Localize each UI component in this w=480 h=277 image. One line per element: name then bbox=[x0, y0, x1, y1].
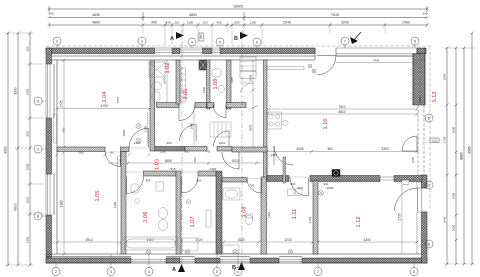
svg-text:2: 2 bbox=[55, 270, 57, 274]
section marker B top bbox=[234, 32, 248, 42]
door arc 1.11 bbox=[290, 178, 309, 197]
svg-text:7: 7 bbox=[317, 270, 319, 274]
bottom wall windows bbox=[131, 260, 166, 262]
wall 1.09 right vertical bbox=[227, 60, 232, 109]
svg-text:1.04: 1.04 bbox=[102, 92, 108, 103]
svg-text:2260: 2260 bbox=[443, 73, 447, 80]
svg-text:8510: 8510 bbox=[338, 110, 345, 114]
corridor bottom wall bbox=[144, 171, 177, 176]
interior dim chain bottom rooms bbox=[57, 241, 417, 243]
svg-text:2910: 2910 bbox=[85, 238, 92, 242]
wall below 1.09 / vestibule bbox=[207, 103, 214, 108]
door arc 1.09 bbox=[213, 105, 226, 118]
right grid bubbles bbox=[425, 114, 433, 248]
svg-text:2000: 2000 bbox=[122, 129, 126, 136]
roof overhang dashed line top bbox=[46, 46, 430, 210]
svg-text:3390: 3390 bbox=[14, 87, 18, 95]
svg-text:1000: 1000 bbox=[26, 163, 30, 170]
symbol circles corridor bbox=[136, 123, 141, 143]
corridor dim chain bbox=[108, 162, 262, 164]
door arc 1.06 bbox=[127, 177, 144, 194]
interior vertical chain right rooms bbox=[401, 185, 403, 254]
svg-text:915: 915 bbox=[170, 167, 175, 171]
radiator 1.01 bbox=[181, 68, 186, 102]
svg-text:1970: 1970 bbox=[163, 77, 167, 84]
bath 1.07 fixtures bbox=[182, 200, 211, 251]
terrace edge double line right bbox=[418, 105, 424, 175]
svg-text:8: 8 bbox=[413, 270, 415, 274]
top wall window 3 lines bbox=[212, 48, 220, 53]
svg-text:1320: 1320 bbox=[210, 167, 217, 171]
svg-text:2110: 2110 bbox=[147, 238, 154, 242]
svg-text:90: 90 bbox=[110, 151, 114, 155]
svg-text:800: 800 bbox=[291, 182, 296, 186]
kitchen shelf row bbox=[266, 67, 304, 70]
svg-text:2068: 2068 bbox=[249, 74, 253, 81]
door arc 1.05 bbox=[105, 152, 120, 167]
wall 1.06/1.07 vertical bbox=[176, 171, 181, 254]
svg-text:2230: 2230 bbox=[284, 238, 291, 242]
vestibule right wall / kitchen wall bbox=[264, 60, 268, 180]
interior vertical chain left rooms bbox=[63, 60, 65, 254]
window dim line top right bbox=[336, 62, 417, 64]
svg-text:1.12: 1.12 bbox=[356, 217, 362, 228]
boiler symbol on wall bbox=[332, 170, 340, 177]
svg-text:6: 6 bbox=[256, 40, 258, 44]
svg-text:3180: 3180 bbox=[60, 200, 64, 207]
entrance opening jambs bbox=[315, 48, 417, 60]
wc 1.09 fixtures bbox=[212, 69, 225, 93]
svg-text:1.05: 1.05 bbox=[95, 191, 101, 202]
svg-text:1390: 1390 bbox=[26, 236, 30, 243]
svg-text:240: 240 bbox=[422, 12, 427, 16]
svg-text:1010: 1010 bbox=[219, 141, 226, 145]
svg-text:900: 900 bbox=[324, 182, 329, 186]
door arc corridor-kitchen bbox=[274, 146, 293, 165]
ticks under H1 bbox=[56, 154, 151, 157]
svg-text:900: 900 bbox=[166, 141, 171, 145]
svg-text:3800: 3800 bbox=[189, 13, 197, 17]
top wall inner face lines bbox=[46, 56, 315, 60]
dim vertical 1.02 bbox=[166, 60, 168, 103]
svg-text:1260: 1260 bbox=[411, 156, 415, 163]
svg-text:2460: 2460 bbox=[418, 96, 422, 103]
svg-text:4: 4 bbox=[148, 270, 150, 274]
wall corridor top dark segment bbox=[155, 147, 186, 152]
wall 1.05/1.06 vertical bbox=[121, 152, 126, 255]
svg-text:1000: 1000 bbox=[452, 224, 456, 231]
svg-text:1.11: 1.11 bbox=[292, 209, 298, 219]
svg-text:3: 3 bbox=[110, 270, 112, 274]
vestibule closet arc bbox=[240, 83, 253, 93]
svg-text:9985: 9985 bbox=[468, 146, 472, 154]
door arc 1.08 bbox=[247, 179, 262, 194]
svg-text:1.07: 1.07 bbox=[190, 217, 196, 228]
bottom grid bubbles bbox=[52, 268, 418, 276]
svg-text:4: 4 bbox=[191, 40, 193, 44]
entry arrow bbox=[350, 37, 358, 44]
section line A bbox=[181, 30, 183, 268]
svg-text:2745: 2745 bbox=[60, 100, 64, 107]
svg-text:4105: 4105 bbox=[100, 104, 107, 108]
svg-text:1.01: 1.01 bbox=[183, 89, 189, 100]
svg-text:4830: 4830 bbox=[92, 13, 100, 17]
attic stair vestibule bbox=[210, 122, 231, 137]
svg-text:5: 5 bbox=[219, 40, 221, 44]
svg-text:350: 350 bbox=[26, 46, 30, 51]
svg-text:1.08: 1.08 bbox=[242, 207, 248, 218]
svg-text:5: 5 bbox=[216, 270, 218, 274]
kitchen-living boundary line bbox=[266, 152, 268, 176]
door arc 1.01 entry bbox=[179, 105, 195, 121]
svg-text:5205: 5205 bbox=[296, 147, 303, 151]
svg-text:400: 400 bbox=[216, 21, 221, 25]
svg-text:4600: 4600 bbox=[92, 21, 100, 25]
symbol circle 1.12 bbox=[319, 191, 324, 196]
section line B bbox=[241, 30, 243, 268]
door arc 1.12 right wall bbox=[395, 188, 418, 211]
radiator 1.04 left wall bbox=[54, 114, 57, 143]
svg-text:1.10: 1.10 bbox=[323, 119, 329, 130]
svg-text:8885: 8885 bbox=[460, 152, 464, 160]
svg-text:1.09: 1.09 bbox=[213, 79, 219, 90]
svg-text:300: 300 bbox=[234, 21, 239, 25]
chimney block bbox=[199, 60, 207, 70]
section marker A top bbox=[170, 32, 184, 42]
big interior hatched wall above 1.11/1.12 bbox=[267, 176, 289, 182]
top dimension tier 2 bbox=[49, 17, 427, 19]
section marker A bottom bbox=[178, 264, 185, 272]
svg-text:16005: 16005 bbox=[233, 5, 243, 9]
svg-text:1260: 1260 bbox=[250, 21, 257, 25]
top dimension tier 3 bbox=[49, 24, 427, 26]
left wall window 2 bbox=[46, 174, 50, 215]
wall 1.07/1.08 vertical hatched bbox=[216, 171, 222, 254]
top grid bubbles bbox=[53, 37, 419, 46]
svg-text:1520: 1520 bbox=[237, 238, 244, 242]
svg-text:3180: 3180 bbox=[113, 201, 117, 208]
svg-text:2735: 2735 bbox=[308, 216, 312, 223]
wall stub by corridor-kitchen door bbox=[283, 157, 286, 183]
svg-text:7495: 7495 bbox=[373, 59, 380, 63]
svg-text:W2: W2 bbox=[199, 34, 203, 39]
exterior wall right upper (by terrace) bbox=[413, 54, 425, 106]
svg-text:1.02: 1.02 bbox=[165, 63, 171, 74]
svg-text:3: 3 bbox=[141, 39, 143, 43]
svg-text:340: 340 bbox=[165, 21, 170, 25]
wall below bath 1.02 bbox=[157, 103, 180, 108]
door arc 1.07 bbox=[182, 177, 199, 194]
exterior wall right lower bbox=[422, 175, 428, 188]
top dimension tier 1 bbox=[49, 8, 427, 10]
svg-text:2735: 2735 bbox=[398, 213, 402, 220]
svg-text:2040: 2040 bbox=[283, 21, 291, 25]
svg-text:6: 6 bbox=[237, 270, 239, 274]
svg-text:1.06: 1.06 bbox=[143, 212, 149, 223]
svg-text:1720: 1720 bbox=[195, 238, 202, 242]
bath 1.06 fixtures bbox=[125, 182, 178, 250]
left wall window 1 bbox=[46, 64, 50, 118]
svg-text:6600: 6600 bbox=[14, 203, 18, 211]
svg-text:9990: 9990 bbox=[4, 146, 8, 154]
svg-text:A: A bbox=[170, 36, 174, 42]
dim texts 1.11/1.12 bbox=[62, 76, 423, 223]
bottom wall inner face bbox=[46, 254, 427, 263]
left grid bubbles bbox=[34, 97, 42, 220]
wc 1.08 fixtures bbox=[223, 188, 253, 254]
svg-text:2530: 2530 bbox=[327, 186, 334, 190]
threshold lines doors bbox=[105, 136, 417, 179]
dim vertical 1.05 bbox=[117, 156, 119, 254]
level box H6 bbox=[402, 180, 409, 184]
svg-text:240: 240 bbox=[48, 12, 53, 16]
dim vertical vestibule bbox=[252, 60, 254, 147]
svg-text:7910: 7910 bbox=[338, 105, 345, 109]
bath 1.02 fixtures bbox=[149, 62, 165, 101]
svg-text:400: 400 bbox=[151, 21, 157, 25]
svg-text:2: 2 bbox=[56, 39, 58, 43]
dim vertical 1.04 bbox=[147, 112, 149, 146]
svg-text:1100: 1100 bbox=[187, 21, 194, 25]
svg-text:B: B bbox=[232, 265, 236, 271]
wall 1.02/1.01 vertical bbox=[176, 60, 180, 104]
svg-text:360: 360 bbox=[193, 157, 197, 162]
door arc 1.04 bbox=[129, 128, 148, 147]
svg-text:-0,02: -0,02 bbox=[431, 139, 438, 143]
corridor top wall right part bbox=[232, 147, 267, 152]
svg-text:1500: 1500 bbox=[26, 88, 30, 95]
svg-text:2030: 2030 bbox=[452, 126, 456, 133]
svg-text:3545: 3545 bbox=[443, 216, 447, 223]
svg-text:2790: 2790 bbox=[443, 136, 447, 143]
wall 1.08 right vertical bbox=[261, 177, 267, 254]
svg-text:7: 7 bbox=[344, 39, 346, 43]
exterior wall top: hatched segments bbox=[46, 48, 155, 54]
svg-text:B: B bbox=[234, 36, 238, 42]
window axis markers bottom bbox=[146, 250, 292, 254]
door arc corridor-1.01 bbox=[179, 125, 196, 142]
grid bubble stubs bbox=[57, 45, 415, 48]
svg-text:1630: 1630 bbox=[452, 192, 456, 199]
stove bbox=[268, 112, 289, 129]
living room inner dim line bbox=[267, 109, 417, 114]
wardrobe boxes 1.11 bbox=[288, 189, 295, 196]
door arc corridor-vestibule bbox=[213, 131, 229, 147]
top dimension texts bbox=[48, 5, 427, 25]
top wall window 2 lines bbox=[180, 48, 203, 53]
svg-text:1400: 1400 bbox=[402, 21, 410, 25]
svg-text:900: 900 bbox=[26, 131, 30, 136]
exterior wall left: hatched segments bbox=[46, 48, 52, 64]
svg-text:7630: 7630 bbox=[331, 13, 339, 17]
svg-text:A: A bbox=[172, 267, 176, 273]
exterior wall bottom: hatched segments bbox=[46, 258, 131, 263]
svg-text:1.03: 1.03 bbox=[155, 159, 161, 170]
wall 1.04/1.05 horizontal bbox=[57, 147, 105, 152]
svg-text:2770: 2770 bbox=[116, 96, 120, 103]
svg-text:3300: 3300 bbox=[381, 147, 388, 151]
entrance door arc bbox=[317, 56, 336, 75]
dim chain 1.04 bbox=[57, 107, 150, 109]
svg-text:1010: 1010 bbox=[231, 159, 238, 163]
living room dims bbox=[296, 105, 388, 151]
svg-text:1970: 1970 bbox=[249, 124, 253, 131]
svg-text:360: 360 bbox=[327, 147, 333, 151]
left wall inner face bbox=[54, 60, 57, 254]
svg-text:3010: 3010 bbox=[26, 196, 30, 203]
wall 1.11/1.12 vertical bbox=[313, 181, 318, 254]
svg-text:1.13: 1.13 bbox=[432, 92, 438, 103]
top wall window 1 lines bbox=[155, 48, 173, 53]
svg-text:220: 220 bbox=[202, 21, 207, 25]
svg-text:1420: 1420 bbox=[202, 86, 206, 93]
level marker right bbox=[430, 138, 439, 143]
right dimension lines bbox=[447, 33, 472, 264]
svg-text:350: 350 bbox=[62, 127, 66, 132]
svg-text:110: 110 bbox=[175, 21, 180, 25]
svg-text:8: 8 bbox=[414, 39, 416, 43]
svg-text:700: 700 bbox=[250, 184, 255, 188]
svg-text:4300: 4300 bbox=[363, 238, 370, 242]
svg-text:3808: 3808 bbox=[164, 159, 171, 163]
left dimension lines bbox=[8, 33, 30, 265]
entrance symbols bbox=[308, 64, 316, 73]
section marker B bottom bbox=[238, 262, 245, 270]
svg-text:2110: 2110 bbox=[267, 211, 271, 218]
svg-text:800: 800 bbox=[146, 179, 151, 183]
window tag W2 bbox=[199, 33, 204, 41]
svg-text:3200: 3200 bbox=[341, 21, 349, 25]
door arc vestibule-corridor down bbox=[222, 152, 239, 169]
top wall long window right bbox=[336, 48, 417, 57]
door arc terrace bbox=[402, 136, 417, 151]
wall 1.09 left vertical bbox=[207, 60, 211, 109]
vestibule cabinet bbox=[240, 57, 256, 71]
dim vertical 1.01 bbox=[193, 108, 195, 146]
wall 1.04 right vertical bbox=[150, 60, 155, 151]
